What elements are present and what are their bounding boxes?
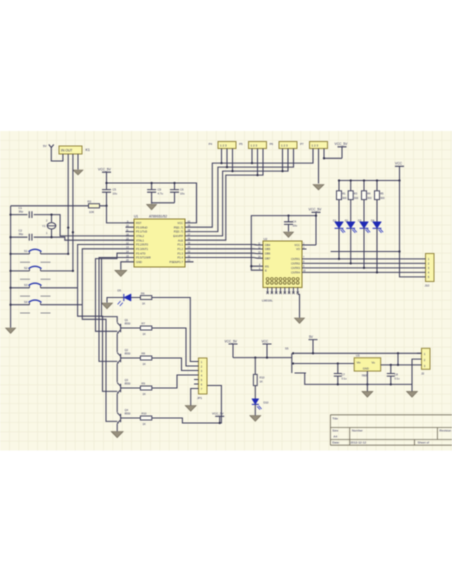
switch S3 xyxy=(11,283,78,296)
svg-text:4.7u: 4.7u xyxy=(158,192,164,196)
wire LED top rail xyxy=(339,181,400,192)
ground Q4 xyxy=(111,432,123,438)
junction dot VCC bottom xyxy=(219,422,221,424)
schematic sheet background xyxy=(0,131,452,451)
label LM016L xyxy=(262,299,273,303)
svg-text:Vin: Vin xyxy=(357,361,362,365)
wire P3.5 to Q2 base xyxy=(99,258,126,362)
svg-text:DB5: DB5 xyxy=(265,247,271,251)
resistor R10 xyxy=(121,412,152,426)
svg-text:P6: P6 xyxy=(270,142,274,146)
wire regulator top rail xyxy=(306,352,422,354)
resistor R6 xyxy=(140,291,151,305)
svg-text:A4: A4 xyxy=(333,435,337,439)
svg-text:30p: 30p xyxy=(19,232,24,236)
svg-text:CNTR1: CNTR1 xyxy=(291,257,300,261)
svg-text:VCC_5V: VCC_5V xyxy=(98,167,112,171)
resistor pack RP1 xyxy=(209,142,236,149)
svg-text:LM016L: LM016L xyxy=(262,299,273,303)
svg-text:VCC: VCC xyxy=(395,162,403,166)
svg-text:P5: P5 xyxy=(239,142,243,146)
svg-text:JP1: JP1 xyxy=(197,396,203,400)
svg-text:PSEN/P1.7: PSEN/P1.7 xyxy=(169,260,183,264)
ground below JP1 xyxy=(185,406,196,412)
wire VCC to U1 pin40 xyxy=(194,183,197,223)
svg-text:R3: R3 xyxy=(354,191,358,195)
U1 pin labels left xyxy=(136,221,151,264)
svg-text:E: E xyxy=(265,268,267,272)
connector J10 xyxy=(421,254,434,288)
svg-text:C7: C7 xyxy=(342,373,346,377)
wire RP1 pin3 drop xyxy=(232,149,234,172)
ground LCD xyxy=(295,318,305,323)
junction dots crystal xyxy=(50,213,52,238)
svg-text:1K: 1K xyxy=(260,380,263,384)
resistor R9 xyxy=(121,382,152,396)
svg-text:10u: 10u xyxy=(180,192,185,196)
svg-text:R10: R10 xyxy=(142,412,147,416)
power flag 5V xyxy=(43,144,54,151)
power flag VCC_5V xyxy=(98,167,112,183)
U1 pin numbers left xyxy=(126,220,129,262)
ground D5 xyxy=(102,303,113,309)
resistor R7 xyxy=(121,322,152,336)
svg-text:0.1u: 0.1u xyxy=(342,377,348,381)
transistor Q4 xyxy=(117,408,131,424)
U2 pin labels right xyxy=(291,243,300,274)
U2 bottom pad circles xyxy=(266,278,299,285)
capacitor C1 xyxy=(11,206,52,218)
no-connect crosses xyxy=(266,292,299,294)
capacitor C8 xyxy=(387,365,400,385)
LCD1602 connector stubs below U2 xyxy=(268,288,298,293)
wire bottom rail xyxy=(305,373,412,384)
switch S4 xyxy=(11,300,83,313)
power flag VCC_5V supply xyxy=(225,339,238,357)
ground U3 xyxy=(362,391,373,397)
svg-text:P3.2/INT0: P3.2/INT0 xyxy=(136,243,149,247)
wire K1 pin4 to ground xyxy=(77,154,79,170)
svg-text:P2[0..7]: P2[0..7] xyxy=(174,230,184,234)
svg-text:R4: R4 xyxy=(367,191,371,195)
resistor R3 xyxy=(348,191,359,222)
resistor R1 xyxy=(337,191,348,222)
svg-text:1 2 3: 1 2 3 xyxy=(281,144,288,148)
svg-text:300: 300 xyxy=(380,196,385,200)
connector K1 xyxy=(59,146,90,154)
svg-text:Y1: Y1 xyxy=(42,224,46,228)
wire VCC rail xyxy=(107,183,197,223)
resistor R8 xyxy=(121,352,152,366)
wire rail Q1 to Q2 xyxy=(116,334,118,352)
svg-text:P3.5/T1/WR: P3.5/T1/WR xyxy=(136,256,151,260)
LED D5 xyxy=(118,289,132,307)
svg-text:Size: Size xyxy=(332,429,338,433)
svg-text:J2: J2 xyxy=(421,372,425,376)
svg-text:R10: R10 xyxy=(260,376,265,380)
wire RP4 pin1 drop xyxy=(312,149,314,164)
wire Vout to connector pin3 xyxy=(381,353,417,365)
svg-text:RST: RST xyxy=(136,221,142,225)
svg-text:U3: U3 xyxy=(356,354,360,358)
ground xyxy=(73,170,83,175)
crystal Y1 xyxy=(42,215,56,238)
wire switch to Vin xyxy=(306,363,354,365)
U2 pin labels xyxy=(265,243,271,272)
wire RP3 pin1 drop xyxy=(282,149,284,172)
svg-text:D10: D10 xyxy=(264,401,269,405)
svg-text:XTAL2: XTAL2 xyxy=(136,234,145,238)
svg-text:VCC_5V: VCC_5V xyxy=(225,339,238,343)
junction dots cap rail xyxy=(250,214,317,267)
svg-text:AT89S51/52: AT89S51/52 xyxy=(149,215,167,219)
wire RP4 pin2 down to ground xyxy=(318,149,320,184)
wire bus row2 P0.1 xyxy=(194,149,294,232)
svg-text:8550: 8550 xyxy=(125,321,131,325)
svg-text:S4: S4 xyxy=(24,300,28,304)
svg-text:P1.2: P1.2 xyxy=(177,247,183,251)
resistor R5 xyxy=(375,191,386,222)
wire R6 to JP1 pin1 xyxy=(152,298,194,362)
svg-text:1 2 3: 1 2 3 xyxy=(312,144,319,148)
resistor R10 xyxy=(253,358,265,399)
svg-text:R2: R2 xyxy=(88,199,92,203)
svg-text:EA/VPP: EA/VPP xyxy=(173,234,183,238)
wire ALE link row xyxy=(331,251,400,253)
svg-text:R7: R7 xyxy=(142,322,146,326)
svg-text:R6: R6 xyxy=(141,291,145,295)
junction dots on left rail xyxy=(9,213,11,305)
wire CNTR2 to J10 xyxy=(307,262,422,264)
junction dot Vout xyxy=(337,362,400,366)
power flag VCC_5V bottom xyxy=(212,412,224,423)
LED D3 xyxy=(358,219,370,268)
svg-text:P1.1: P1.1 xyxy=(177,243,183,247)
U2 pin numbers xyxy=(258,243,306,272)
svg-text:10u: 10u xyxy=(113,192,118,196)
svg-text:GND: GND xyxy=(363,367,369,371)
wire RP2 pin1 drop xyxy=(251,149,253,164)
svg-text:300: 300 xyxy=(354,196,359,200)
wire cap rail xyxy=(251,216,316,271)
wire bus row1 P0.0 xyxy=(194,149,314,228)
wire LCD ground xyxy=(298,294,300,317)
wire bus1 K1 pin2 down to S1 xyxy=(67,154,69,254)
wire U1 P1.1 to U2 DB4 xyxy=(194,244,258,247)
svg-text:10u: 10u xyxy=(293,224,298,228)
transistor Q2 xyxy=(117,348,131,364)
svg-text:300: 300 xyxy=(367,196,372,200)
wire R9 to JP1 pin4 xyxy=(152,375,194,388)
wire XTAL2 xyxy=(52,215,135,236)
ground U1 xyxy=(115,270,127,276)
svg-text:DB7: DB7 xyxy=(265,256,271,260)
wire Q1 collector up xyxy=(102,259,118,323)
wire bus row3 P0.2 xyxy=(194,148,289,235)
capacitor C7 xyxy=(334,364,347,385)
svg-text:VCC_5V: VCC_5V xyxy=(335,142,349,146)
U1 right pin stubs xyxy=(185,223,194,262)
svg-text:8550: 8550 xyxy=(125,351,131,355)
wire U1 GND to ground xyxy=(121,262,126,270)
junction dots top rail xyxy=(312,352,399,354)
svg-text:IN OUT: IN OUT xyxy=(61,149,73,153)
svg-text:VCC: VCC xyxy=(177,221,183,225)
wire R10 to JP1 right side xyxy=(152,386,222,424)
svg-text:S5: S5 xyxy=(285,346,289,350)
svg-text:U1: U1 xyxy=(134,215,138,219)
svg-text:VCC_5V: VCC_5V xyxy=(309,208,323,212)
svg-text:P1.3: P1.3 xyxy=(177,251,183,255)
LED D1 xyxy=(333,219,345,259)
wire RP2 pin2 drop xyxy=(257,149,259,176)
wire U1 P1.3 to U2 DB6 xyxy=(194,252,258,254)
wire U1 P1.2 to U2 DB5 xyxy=(194,248,258,250)
U1 pin numbers right xyxy=(188,220,191,262)
wire 5V to K1 pin1 xyxy=(51,151,63,161)
wire RP4 pin3 up stub xyxy=(323,149,325,159)
svg-text:CNTR3: CNTR3 xyxy=(291,266,300,270)
switch S1 xyxy=(11,249,69,262)
ground left rail xyxy=(6,328,16,333)
resistor pack RP3 xyxy=(270,142,297,149)
wire ground to D5 xyxy=(107,298,140,303)
wire rail Q2 to Q3 xyxy=(116,364,118,382)
wire CNTR3 to J10 xyxy=(307,267,422,269)
svg-text:8550: 8550 xyxy=(125,411,131,415)
ground D10 xyxy=(250,416,261,422)
svg-text:P7: P7 xyxy=(300,142,304,146)
wire connector pin2 to ground xyxy=(412,359,417,391)
svg-text:1 2 3: 1 2 3 xyxy=(220,144,227,148)
svg-text:2012-12-12: 2012-12-12 xyxy=(350,441,366,445)
power flag VCC_5V above U2 xyxy=(302,208,322,245)
svg-text:R8: R8 xyxy=(142,352,146,356)
svg-text:8550: 8550 xyxy=(125,381,131,385)
junction dots bottom rail xyxy=(337,383,392,385)
svg-text:Number: Number xyxy=(352,429,363,433)
op-amp U1 body xyxy=(134,215,185,268)
svg-text:U2: U2 xyxy=(264,237,268,241)
svg-text:VO: VO xyxy=(296,247,300,251)
svg-text:CNTR4: CNTR4 xyxy=(291,271,300,275)
wire CNTR4 to J10 xyxy=(307,271,422,273)
wire RP3 pin3 drop xyxy=(293,149,295,168)
capacitor C4 xyxy=(284,216,298,232)
wire P3.4 to Q1 base xyxy=(96,253,126,331)
power flag VCC_5V top right xyxy=(324,142,348,158)
svg-text:R1: R1 xyxy=(342,191,346,195)
connector JP1 xyxy=(194,358,207,400)
junction dot VCC drop xyxy=(398,250,400,252)
svg-text:Sheet of: Sheet of xyxy=(418,441,430,445)
wire bus row4 P0.3 xyxy=(194,149,264,241)
svg-text:Title: Title xyxy=(332,416,338,420)
wire JP1 pin7 to ground xyxy=(191,389,194,406)
wire U1 P1.4 to U2 DB7 xyxy=(194,257,258,260)
wire S4 vertical continues to Q4 base xyxy=(82,305,117,422)
svg-text:DB4: DB4 xyxy=(265,243,271,247)
svg-text:1 2 3: 1 2 3 xyxy=(251,144,258,148)
svg-text:300: 300 xyxy=(342,196,347,200)
wire CNTR1 to J10 xyxy=(307,258,422,260)
svg-text:30p: 30p xyxy=(19,210,24,214)
U1 pin labels right xyxy=(169,221,183,264)
svg-text:1K: 1K xyxy=(143,332,146,336)
switch S5 xyxy=(285,346,306,373)
wire XTAL1 xyxy=(52,237,135,240)
ground below C9 xyxy=(147,204,157,209)
wire RP1 pin2 drop xyxy=(226,149,228,168)
svg-text:1K: 1K xyxy=(143,362,146,366)
LCD U2 body xyxy=(263,237,302,288)
junction dots LED rail xyxy=(338,179,401,181)
svg-text:P3.3/INT1: P3.3/INT1 xyxy=(136,247,149,251)
svg-text:0.1u: 0.1u xyxy=(395,377,401,381)
svg-text:1K: 1K xyxy=(142,302,145,306)
capacitor C6 xyxy=(152,183,186,203)
svg-text:VCC: VCC xyxy=(262,339,269,343)
power flag VCC supply xyxy=(262,339,272,357)
junction dots LED columns xyxy=(338,258,378,274)
wire ground rail left xyxy=(10,206,12,328)
svg-text:P0[0..7]: P0[0..7] xyxy=(174,225,184,229)
resistor R2 xyxy=(88,199,100,214)
LED D2 xyxy=(345,219,357,264)
svg-text:S1: S1 xyxy=(24,249,28,253)
svg-text:XTAL1: XTAL1 xyxy=(136,238,145,242)
svg-text:VCC: VCC xyxy=(294,243,300,247)
U1 left pin stubs xyxy=(126,223,135,262)
svg-text:P3.0/RxD: P3.0/RxD xyxy=(136,225,148,229)
junction dots top bus xyxy=(220,157,325,176)
svg-text:S2: S2 xyxy=(24,266,28,270)
svg-text:J10: J10 xyxy=(425,284,430,288)
U2 left pin stubs xyxy=(258,245,264,270)
svg-text:K1: K1 xyxy=(86,148,90,152)
resistor R4 xyxy=(362,191,373,222)
resistor pack RP2 xyxy=(239,142,266,149)
svg-text:ALE: ALE xyxy=(178,238,183,242)
svg-text:P1.4: P1.4 xyxy=(177,256,183,260)
LED D10 xyxy=(252,399,269,416)
svg-text:S3: S3 xyxy=(24,283,28,287)
svg-text:C8: C8 xyxy=(395,373,399,377)
capacitor C9 xyxy=(147,183,163,204)
svg-text:1K: 1K xyxy=(143,422,146,426)
U2 right pin stubs xyxy=(302,245,307,272)
capacitor C5 xyxy=(102,183,118,206)
power flag 5V regulator xyxy=(309,335,318,353)
ground below C4 xyxy=(284,232,294,237)
transistor Q1 xyxy=(117,318,131,334)
switch S2 xyxy=(11,266,73,279)
wire R7 to JP1 pin2 xyxy=(152,328,194,366)
transistor Q3 xyxy=(117,378,131,394)
wire RP3 pin2 drop xyxy=(287,149,289,172)
ground connector J2 xyxy=(407,391,418,397)
power flag VCC xyxy=(395,162,404,181)
junction dots on bus wires xyxy=(67,226,74,272)
svg-text:DB6: DB6 xyxy=(265,252,271,256)
regulator U3 7805 xyxy=(354,354,381,378)
svg-text:GND: GND xyxy=(136,260,142,264)
svg-text:Vo: Vo xyxy=(372,361,376,365)
svg-text:R9: R9 xyxy=(142,382,146,386)
wire supply rail xyxy=(233,357,292,359)
svg-text:P3.4/T0: P3.4/T0 xyxy=(136,251,146,255)
svg-text:CNTR2: CNTR2 xyxy=(291,262,300,266)
resistor pack RP4 xyxy=(300,142,327,149)
wire R8 to JP1 pin3 xyxy=(152,358,194,371)
LED D4 xyxy=(371,219,383,273)
wire P3.2 to S3 xyxy=(78,245,126,288)
ground below RP4 xyxy=(313,185,324,191)
wire rail Q3 to Q4 xyxy=(116,394,118,412)
wire Q4 emitter to ground xyxy=(116,424,118,432)
title block texts xyxy=(332,416,451,444)
svg-text:P4: P4 xyxy=(209,142,213,146)
svg-text:VCC_5V: VCC_5V xyxy=(212,412,224,416)
wire bus2 K1 pin3 down to S2 xyxy=(72,154,74,271)
svg-text:R5: R5 xyxy=(380,191,384,195)
svg-text:10K: 10K xyxy=(89,210,94,214)
junction dots on VCC rail xyxy=(105,182,175,207)
svg-text:Date:: Date: xyxy=(332,441,340,445)
capacitor C2 xyxy=(11,228,52,240)
svg-text:RS: RS xyxy=(265,264,269,268)
junction dots supply rail xyxy=(254,356,268,358)
svg-text:Revision: Revision xyxy=(439,429,451,433)
wire S3 vertical continues to Q3 base xyxy=(78,288,118,392)
wire VCC drop to connector xyxy=(400,181,422,277)
wire P3.3 to S4 xyxy=(82,249,125,305)
connector J2 xyxy=(417,348,430,375)
svg-text:1K: 1K xyxy=(143,392,146,396)
svg-text:5V: 5V xyxy=(43,144,47,148)
svg-text:P3.1/TxD: P3.1/TxD xyxy=(136,230,147,234)
svg-text:D5: D5 xyxy=(118,289,122,293)
wire U3 GND down xyxy=(366,371,368,391)
wire left rail to R2 and R2 to RST node xyxy=(11,206,134,223)
wire RP1 pin1 drop xyxy=(221,149,223,164)
